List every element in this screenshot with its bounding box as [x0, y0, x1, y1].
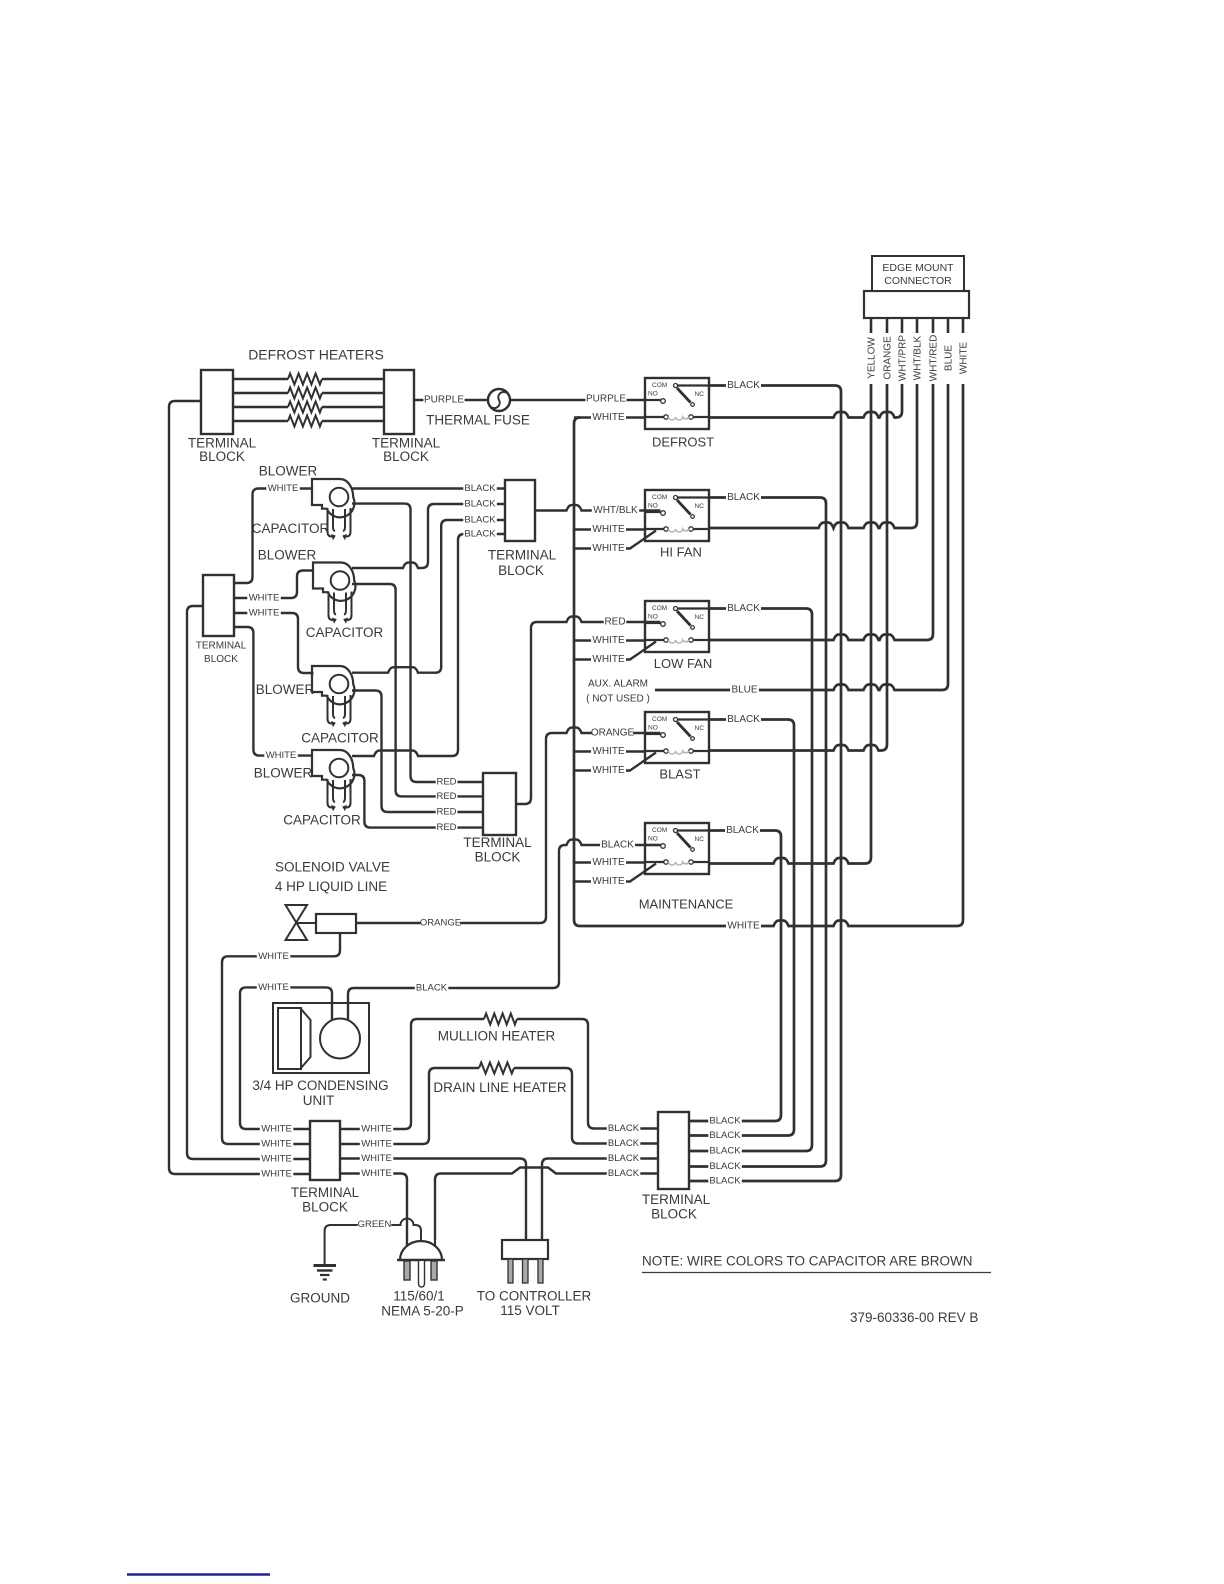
label BLOWER (B1): [259, 464, 318, 479]
label TERMINAL BLOCK (TB5): [196, 641, 247, 666]
wire WHITE (TB6 row2 right to drain): [340, 1138, 429, 1144]
wire WHITE stub (MAINT coil): [574, 861, 645, 863]
svg-text:115/60/1: 115/60/1: [393, 1289, 445, 1304]
svg-text:BLOWER: BLOWER: [256, 682, 315, 697]
svg-text:WHITE: WHITE: [361, 1139, 392, 1150]
label BLACK (HI FAN): [726, 491, 761, 503]
svg-text:BLACK: BLACK: [727, 492, 760, 503]
label CAPACITOR (B4): [283, 813, 361, 828]
label WHITE 2 (BLAST): [591, 764, 626, 776]
label BLACK (TB7 row1): [607, 1123, 641, 1134]
wire WHITE (TB5 row2 to B3): [234, 613, 314, 673]
svg-text:CONNECTOR: CONNECTOR: [884, 275, 952, 287]
part number: [850, 1310, 978, 1325]
blower B1: [312, 479, 354, 540]
condensing unit motor: [320, 1019, 360, 1059]
svg-text:WHITE: WHITE: [249, 608, 280, 619]
label WHITE (TB6 left y1129): [260, 1123, 294, 1134]
svg-text:WHITE: WHITE: [592, 876, 625, 887]
svg-text:BLACK: BLACK: [464, 515, 496, 526]
label BLACK (TB7 right y1151): [708, 1145, 742, 1156]
label WHITE (TB6 left y1159): [260, 1153, 294, 1164]
wire RED (B4 to TB4 row4): [352, 775, 483, 828]
svg-text:PURPLE: PURPLE: [586, 394, 626, 405]
label RED (row4): [436, 822, 458, 833]
wire WHITE stub 2 (HI FAN): [574, 531, 656, 549]
svg-text:NC: NC: [695, 503, 705, 510]
wire TB5-left to bottom TB row3: [187, 606, 310, 1159]
wire ORANGE (solenoid to BLAST NO): [356, 728, 661, 924]
label AUX. ALARM (NOT USED): [586, 679, 650, 705]
label CAPACITOR (B1): [252, 521, 330, 536]
svg-text:COM: COM: [652, 827, 667, 834]
label BLACK (TB7 row3): [607, 1153, 641, 1164]
label WHITE (TB6 left y1174): [260, 1168, 294, 1179]
svg-text:COM: COM: [652, 382, 667, 389]
svg-text:BLOCK: BLOCK: [651, 1207, 697, 1222]
svg-text:3/4 HP CONDENSING: 3/4 HP CONDENSING: [252, 1078, 388, 1093]
svg-text:TERMINAL: TERMINAL: [196, 641, 247, 652]
svg-text:GREEN: GREEN: [358, 1219, 392, 1230]
label RED (row2): [436, 791, 458, 802]
label BLACK (B2): [463, 498, 497, 509]
wire RED (B1 to TB4 row1): [352, 504, 483, 782]
label WHITE (B1): [266, 483, 300, 494]
label WHITE 2 (LOW FAN): [591, 653, 626, 665]
wire WHITE (TB5 to B4): [234, 627, 312, 756]
edge mount connector J1: [864, 256, 969, 318]
wire RED (B3 to TB4 row3): [352, 691, 483, 813]
svg-text:BLOCK: BLOCK: [199, 449, 245, 464]
svg-text:MULLION HEATER: MULLION HEATER: [438, 1029, 556, 1044]
svg-text:DEFROST HEATERS: DEFROST HEATERS: [248, 347, 384, 363]
svg-text:COM: COM: [652, 716, 667, 723]
svg-text:WHITE: WHITE: [261, 1154, 292, 1165]
svg-text:BLACK: BLACK: [709, 1161, 741, 1172]
label BLACK (TB7 right y1121): [708, 1115, 742, 1126]
label WHITE (TB6 left y1144): [260, 1138, 294, 1149]
svg-text:BLACK: BLACK: [464, 529, 496, 540]
svg-text:BLACK: BLACK: [709, 1116, 741, 1127]
svg-text:EDGE MOUNT: EDGE MOUNT: [882, 262, 954, 274]
svg-text:BLOWER: BLOWER: [254, 766, 313, 781]
terminal block TB7 (bottom right): [658, 1112, 689, 1189]
svg-text:BLUE: BLUE: [944, 345, 955, 371]
wire WHITE stub (BLAST coil): [574, 750, 645, 752]
label BLACK (TB7 right y1135.5): [708, 1130, 742, 1141]
svg-text:TERMINAL: TERMINAL: [642, 1192, 711, 1207]
svg-text:HI FAN: HI FAN: [660, 544, 702, 559]
connector pin stubs: [871, 318, 963, 333]
label BLACK (DEFROST): [726, 379, 761, 391]
label WHITE (MAINT coil): [591, 856, 626, 868]
label PURPLE: [423, 394, 464, 406]
label WHITE (TB5 row1): [247, 592, 280, 603]
label WHITE (TB6 r1): [360, 1123, 394, 1134]
terminal block TB6 (bottom left): [310, 1121, 340, 1180]
svg-text:WHITE: WHITE: [727, 921, 760, 932]
svg-text:NO: NO: [648, 503, 658, 510]
svg-text:WHITE: WHITE: [592, 654, 625, 665]
label BLACK (TB7 row2): [607, 1138, 641, 1149]
label BLACK (condensing): [415, 982, 449, 993]
blue line artifact: [127, 1573, 270, 1575]
wire BLUE (aux alarm to pin 6): [655, 384, 948, 690]
wire RED (TB4 to LOW FAN NO): [516, 617, 661, 805]
svg-text:THERMAL FUSE: THERMAL FUSE: [426, 413, 530, 428]
wire YELLOW (MAINTENANCE coil to pin 1): [709, 384, 871, 864]
svg-text:WHITE: WHITE: [592, 765, 625, 776]
label WHITE (TB6 r3): [360, 1153, 394, 1164]
svg-text:CAPACITOR: CAPACITOR: [306, 625, 384, 640]
label 115/60/1 NEMA 5-20-P: [381, 1289, 464, 1319]
connector wire color labels (rotated): [867, 335, 970, 382]
svg-text:NC: NC: [695, 614, 705, 621]
drain line heater R6: [429, 1063, 658, 1144]
label CAPACITOR (B2): [306, 625, 384, 640]
svg-text:COM: COM: [652, 494, 667, 501]
svg-text:WHITE: WHITE: [249, 593, 280, 604]
label TO CONTROLLER 115 VOLT: [477, 1289, 592, 1319]
svg-text:MAINTENANCE: MAINTENANCE: [639, 896, 734, 911]
label BLACK (B4): [463, 528, 497, 539]
relay K3 LOW FAN: [645, 601, 712, 671]
wire WHITE (TB5 to B1): [234, 489, 312, 584]
blower B3: [312, 666, 354, 727]
label BLACK (B1): [463, 483, 497, 494]
wire BLACK (MAINTENANCE COM to TB right row1): [689, 831, 781, 1122]
svg-text:WHITE: WHITE: [592, 543, 625, 554]
svg-text:WHITE: WHITE: [592, 635, 625, 646]
power plug P1 (NEMA 5-20-P): [397, 1241, 445, 1287]
svg-text:BLACK: BLACK: [608, 1153, 640, 1164]
label BLACK (TB7 right y1181): [708, 1175, 742, 1186]
svg-text:WHITE: WHITE: [592, 412, 625, 423]
svg-text:379-60336-00 REV B: 379-60336-00 REV B: [850, 1310, 978, 1325]
defrost heater element R1: [233, 374, 384, 385]
svg-text:YELLOW: YELLOW: [867, 337, 878, 379]
label ORANGE (solenoid): [420, 917, 461, 928]
label WHITE 2 (HI FAN): [591, 542, 626, 554]
svg-text:WHITE: WHITE: [258, 982, 289, 993]
wire WHITE (solenoid return to TB row2): [222, 933, 340, 1144]
wire BLACK (B2 top to TB3 row2): [352, 504, 505, 568]
label WHITE (B4): [264, 750, 298, 761]
condensing unit compressor shape: [278, 1008, 311, 1069]
note text: [642, 1254, 991, 1273]
label BLUE: [730, 684, 759, 696]
svg-text:WHITE: WHITE: [258, 951, 289, 962]
label WHT/BLK: [592, 504, 639, 516]
svg-text:NC: NC: [695, 836, 705, 843]
wire (plug right cord): [434, 1240, 436, 1247]
svg-text:ORANGE: ORANGE: [591, 728, 635, 739]
label WHITE (TB6 r4): [360, 1168, 394, 1179]
wire PURPLE (TB2 to thermal fuse): [414, 399, 488, 401]
wire WHITE stub (DEFROST coil): [574, 416, 645, 418]
svg-text:NC: NC: [695, 725, 705, 732]
wire BLACK (HI FAN COM to TB right row4): [689, 498, 826, 1167]
svg-text:WHITE: WHITE: [261, 1169, 292, 1180]
svg-text:WHITE: WHITE: [361, 1124, 392, 1135]
svg-text:LOW FAN: LOW FAN: [654, 656, 713, 671]
label DRAIN LINE HEATER: [433, 1080, 567, 1095]
label TERMINAL BLOCK (TB4): [463, 835, 532, 865]
svg-text:WHITE: WHITE: [592, 746, 625, 757]
controller connector P2: [502, 1240, 548, 1283]
svg-text:BLOCK: BLOCK: [475, 850, 521, 865]
svg-text:WHT/RED: WHT/RED: [929, 335, 940, 382]
label 3/4 HP CONDENSING UNIT: [252, 1078, 388, 1108]
label WHITE (TB6 r2): [360, 1138, 394, 1149]
svg-text:UNIT: UNIT: [303, 1093, 335, 1108]
svg-text:BLACK: BLACK: [608, 1138, 640, 1149]
label BLOWER (B4): [254, 766, 313, 781]
svg-text:NO: NO: [648, 391, 658, 398]
svg-text:WHITE: WHITE: [592, 524, 625, 535]
svg-text:NO: NO: [648, 725, 658, 732]
wire WHITE stub (HI FAN coil): [574, 528, 645, 530]
label BLACK (MAINTENANCE): [725, 824, 760, 836]
terminal block TB3 (blower black wires): [505, 480, 535, 541]
wire WHITE (TB6 row1 right to mullion): [340, 1123, 411, 1129]
label WHITE (BLAST coil): [591, 745, 626, 757]
svg-text:RED: RED: [604, 617, 625, 628]
wire GREEN (plug to ground): [325, 1219, 421, 1265]
label WHITE (LOW FAN coil): [591, 634, 626, 646]
svg-text:BLOCK: BLOCK: [383, 449, 429, 464]
blower B2: [313, 563, 355, 624]
svg-text:BLACK: BLACK: [464, 499, 496, 510]
wire WHT/RED (LOW FAN coil to pin 5): [709, 384, 933, 640]
solenoid valve SV1 coil: [296, 914, 356, 933]
svg-text:BLOWER: BLOWER: [258, 548, 317, 563]
relay K1 DEFROST: [645, 378, 714, 449]
svg-text:WHITE: WHITE: [361, 1153, 392, 1164]
svg-text:DEFROST: DEFROST: [652, 434, 714, 449]
wire RED (B2 to TB4 row2): [352, 584, 483, 796]
svg-text:BLACK: BLACK: [727, 603, 760, 614]
svg-text:BLACK: BLACK: [709, 1146, 741, 1157]
svg-text:BLACK: BLACK: [416, 983, 448, 994]
svg-text:115 VOLT: 115 VOLT: [500, 1303, 560, 1318]
svg-text:BLOCK: BLOCK: [302, 1200, 348, 1215]
wire WHITE stub (LOW FAN coil): [574, 639, 645, 641]
wire WHT/BLK (HI FAN coil to pin 4): [709, 384, 917, 528]
svg-text:BLOCK: BLOCK: [204, 654, 238, 665]
svg-text:WHITE: WHITE: [361, 1168, 392, 1179]
svg-text:WHITE: WHITE: [266, 750, 297, 761]
svg-text:BLACK: BLACK: [727, 714, 760, 725]
svg-text:WHT/PRP: WHT/PRP: [898, 335, 909, 381]
wire BLACK (B4 top to TB3 row4): [352, 534, 505, 756]
label WHITE (condensing): [257, 982, 291, 993]
relay K5 MAINTENANCE: [639, 823, 734, 911]
svg-text:SOLENOID VALVE: SOLENOID VALVE: [275, 860, 390, 875]
wire WHITE (TB6 row4 to plug): [340, 1174, 407, 1248]
svg-text:WHITE: WHITE: [268, 483, 299, 494]
label BLOWER (B3): [256, 682, 315, 697]
wire BLACK (LOW FAN COM to TB right row3): [689, 609, 812, 1152]
wire TB1-left to bottom terminal block row4 (white): [169, 401, 310, 1174]
svg-text:NO: NO: [648, 836, 658, 843]
svg-text:CAPACITOR: CAPACITOR: [252, 521, 330, 536]
terminal block TB1 (defrost heaters, left): [201, 370, 233, 434]
relay K2 HI FAN: [645, 490, 709, 559]
svg-text:NEMA 5-20-P: NEMA 5-20-P: [381, 1304, 464, 1319]
svg-text:BLACK: BLACK: [608, 1123, 640, 1134]
label WHITE (common): [726, 920, 761, 932]
label BLOWER (B2): [258, 548, 317, 563]
wire BLACK (BLAST COM to TB right row2): [689, 720, 794, 1136]
label BLACK (TB7 right y1166.5): [708, 1161, 742, 1172]
label RED (row1): [436, 776, 458, 787]
svg-text:BLACK: BLACK: [727, 380, 760, 391]
terminal block TB2 (defrost heaters, right): [384, 370, 414, 434]
label TERMINAL BLOCK (TB1): [188, 436, 257, 465]
svg-text:WHT/BLK: WHT/BLK: [593, 505, 638, 516]
label BLACK (B3): [463, 514, 497, 525]
label TERMINAL BLOCK (TB7): [642, 1192, 711, 1222]
label WHITE 2 (MAINT): [591, 875, 626, 887]
label SOLENOID VALVE: [275, 860, 390, 895]
svg-text:RED: RED: [436, 822, 456, 833]
label MULLION HEATER: [438, 1029, 556, 1044]
label WHITE (solenoid): [257, 950, 291, 961]
svg-text:WHT/BLK: WHT/BLK: [913, 335, 924, 380]
mullion heater R5: [411, 1014, 658, 1129]
svg-text:AUX. ALARM: AUX. ALARM: [588, 679, 648, 690]
svg-text:BLACK: BLACK: [726, 825, 759, 836]
svg-text:BLAST: BLAST: [659, 766, 700, 781]
wire WHITE stub 2 (LOW FAN): [574, 642, 656, 660]
wire WHITE (TB5 row1 to B2): [234, 571, 313, 599]
wire BLACK (B1 top to TB3 row1): [352, 487, 505, 489]
svg-text:TERMINAL: TERMINAL: [463, 835, 532, 850]
wire WHITE (TB6 row3 to controller left prong): [340, 1159, 526, 1241]
wire BLACK (plug to TB7 row4): [435, 1168, 658, 1241]
svg-text:BLACK: BLACK: [709, 1130, 741, 1141]
wire WHT/PRP (DEFROST coil to pin 3): [709, 384, 902, 418]
label CAPACITOR (B3): [301, 731, 379, 746]
svg-text:RED: RED: [436, 791, 456, 802]
terminal block TB4 (blower red wires): [483, 773, 516, 835]
wire WHITE (condensing to TB row1): [240, 987, 332, 1129]
svg-text:NO: NO: [648, 614, 658, 621]
svg-text:WHITE: WHITE: [261, 1124, 292, 1135]
label BLACK (MAINTENANCE NO): [600, 839, 635, 851]
svg-text:BLACK: BLACK: [709, 1176, 741, 1187]
svg-text:CAPACITOR: CAPACITOR: [283, 813, 361, 828]
svg-text:DRAIN LINE HEATER: DRAIN LINE HEATER: [433, 1080, 567, 1095]
svg-text:4 HP LIQUID LINE: 4 HP LIQUID LINE: [275, 879, 387, 894]
label TERMINAL BLOCK (TB6): [291, 1185, 360, 1215]
label TERMINAL BLOCK (TB2): [372, 436, 441, 465]
thermal fuse F1: [426, 389, 530, 428]
wire BLACK (B3 top to TB3 row3): [352, 520, 505, 673]
label BLACK (TB7 row4): [607, 1168, 641, 1179]
defrost heater element R2: [233, 388, 384, 399]
svg-text:WHITE: WHITE: [959, 342, 970, 375]
solenoid valve SV1 (valve symbol): [286, 905, 308, 940]
wire BLACK (DEFROST COM to TB right row5): [689, 386, 841, 1182]
label WHITE (HI FAN coil): [591, 523, 626, 535]
svg-text:ORANGE: ORANGE: [883, 336, 894, 380]
label GREEN: [358, 1219, 392, 1230]
label GROUND: [290, 1291, 350, 1306]
label ORANGE (BLAST): [591, 727, 635, 739]
svg-text:TERMINAL: TERMINAL: [488, 548, 557, 563]
relay K4 BLAST: [645, 712, 709, 781]
wire WHITE stub 2 (BLAST): [574, 753, 656, 771]
svg-text:TERMINAL: TERMINAL: [291, 1185, 360, 1200]
defrost heater element R4: [233, 416, 384, 427]
svg-text:GROUND: GROUND: [290, 1291, 350, 1306]
svg-text:BLUE: BLUE: [731, 685, 757, 696]
svg-text:WHITE: WHITE: [261, 1139, 292, 1150]
svg-text:CAPACITOR: CAPACITOR: [301, 731, 379, 746]
label DEFROST HEATERS: [248, 347, 384, 363]
svg-text:BLACK: BLACK: [464, 483, 496, 494]
label WHITE (DEFROST coil): [591, 411, 626, 423]
label RED (LOW FAN): [604, 616, 627, 628]
label BLACK (LOW FAN): [726, 602, 761, 614]
label RED (row3): [436, 806, 458, 817]
terminal block TB5 (blower whites): [203, 575, 234, 636]
svg-text:BLOCK: BLOCK: [498, 563, 544, 578]
svg-text:WHITE: WHITE: [592, 857, 625, 868]
wire WHITE stub 2 (MAINT): [574, 864, 656, 882]
condensing unit M1 (box): [273, 1003, 369, 1073]
svg-text:BLACK: BLACK: [608, 1168, 640, 1179]
label PURPLE (at DEFROST): [585, 393, 626, 405]
wire WHT/BLK (TB3 to HI FAN NO): [535, 505, 661, 511]
svg-text:BLACK: BLACK: [601, 840, 634, 851]
ground symbol: [314, 1266, 337, 1280]
wire BLACK (controller right prong to TB7 row3): [542, 1159, 658, 1241]
defrost heater element R3: [233, 402, 384, 413]
blower B4: [312, 750, 354, 811]
wire PURPLE (thermal fuse to DEFROST relay NO): [510, 399, 661, 401]
svg-text:NC: NC: [695, 391, 705, 398]
svg-text:NOTE: WIRE COLORS TO CAPACITOR: NOTE: WIRE COLORS TO CAPACITOR ARE BROWN: [642, 1254, 973, 1269]
wire ORANGE (BLAST coil to pin 2): [709, 384, 887, 751]
svg-text:TO CONTROLLER: TO CONTROLLER: [477, 1289, 592, 1304]
label BLACK (BLAST): [726, 713, 761, 725]
svg-text:ORANGE: ORANGE: [420, 918, 461, 929]
svg-text:BLOWER: BLOWER: [259, 464, 318, 479]
svg-text:RED: RED: [436, 777, 456, 788]
label WHITE (TB5 row2): [247, 607, 280, 618]
svg-text:( NOT USED ): ( NOT USED ): [586, 694, 650, 705]
svg-text:RED: RED: [436, 807, 456, 818]
label TERMINAL BLOCK (TB3): [488, 548, 557, 579]
svg-text:COM: COM: [652, 605, 667, 612]
wire WHITE common (relay coils common to pin 7): [574, 384, 963, 926]
wire BLACK (condensing to MAINTENANCE NO): [348, 840, 661, 1021]
svg-text:PURPLE: PURPLE: [424, 395, 464, 406]
